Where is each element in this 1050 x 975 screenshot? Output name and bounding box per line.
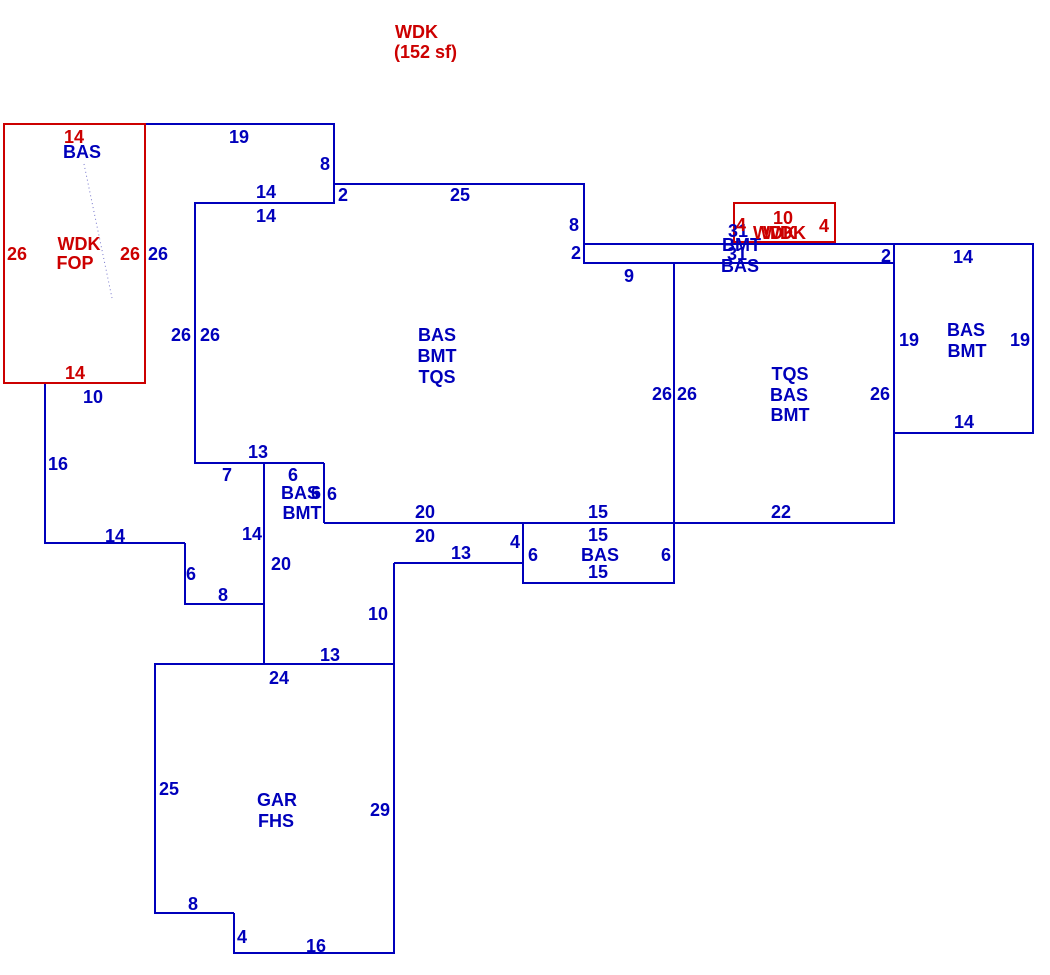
svg-text:FOP: FOP — [56, 253, 93, 273]
svg-text:4: 4 — [510, 532, 520, 552]
svg-text:GAR: GAR — [257, 790, 297, 810]
svg-text:BAS: BAS — [63, 142, 101, 162]
svg-text:15: 15 — [588, 502, 608, 522]
svg-text:26: 26 — [120, 244, 140, 264]
wire GAR bottom wall y=953 — [234, 952, 394, 954]
wire notch top wall y=463 — [194, 462, 324, 464]
svg-text:WDK: WDK — [395, 22, 438, 42]
wire main right upper wall x=584 — [583, 183, 585, 264]
svg-text:BAS: BAS — [418, 325, 456, 345]
svg-text:13: 13 — [248, 442, 268, 462]
wire east GAR wall x=394 — [393, 563, 395, 954]
wire GAR step wall y=913 — [155, 912, 234, 914]
svg-text:4: 4 — [819, 216, 829, 236]
svg-text:16: 16 — [48, 454, 68, 474]
svg-text:20: 20 — [271, 554, 291, 574]
svg-text:24: 24 — [269, 668, 289, 688]
svg-text:TQS: TQS — [771, 364, 808, 384]
svg-text:6: 6 — [327, 484, 337, 504]
svg-text:19: 19 — [229, 127, 249, 147]
wire step wall y=563 — [394, 562, 523, 564]
svg-text:14: 14 — [65, 363, 85, 383]
svg-text:14: 14 — [953, 247, 973, 267]
svg-text:6: 6 — [528, 545, 538, 565]
wire small box right wall x=324 — [323, 463, 325, 523]
svg-text:8: 8 — [569, 215, 579, 235]
wire south BAS bottom wall y=583 — [523, 582, 675, 584]
svg-text:14: 14 — [256, 206, 276, 226]
wire main top wall y=184 — [334, 183, 584, 185]
svg-text:BAS: BAS — [770, 385, 808, 405]
svg-text:TQS: TQS — [418, 367, 455, 387]
svg-text:FHS: FHS — [258, 811, 294, 831]
wire TQS right wall x=894 — [893, 243, 895, 524]
svg-text:BMT: BMT — [771, 405, 810, 425]
svg-text:BMT: BMT — [283, 503, 322, 523]
wire strip bottom wall y=263 — [584, 262, 894, 264]
svg-text:26: 26 — [652, 384, 672, 404]
svg-text:4: 4 — [237, 927, 247, 947]
svg-text:14: 14 — [105, 526, 125, 546]
svg-text:6: 6 — [186, 564, 196, 584]
svg-text:9: 9 — [624, 266, 634, 286]
wire wall y=604 — [185, 603, 264, 605]
wire TQS left wall x=674 — [673, 263, 675, 583]
svg-text:26: 26 — [7, 244, 27, 264]
svg-text:14: 14 — [242, 524, 262, 544]
svg-text:4: 4 — [736, 215, 746, 235]
svg-text:22: 22 — [771, 502, 791, 522]
svg-text:BMT: BMT — [948, 341, 987, 361]
wire step wall y=203 — [194, 202, 334, 204]
svg-text:26: 26 — [677, 384, 697, 404]
svg-text:(152 sf): (152 sf) — [394, 42, 457, 62]
svg-text:20: 20 — [415, 526, 435, 546]
svg-text:10: 10 — [368, 604, 388, 624]
deck WDK small red outline — [734, 203, 835, 242]
svg-text:6: 6 — [288, 465, 298, 485]
svg-text:BMT: BMT — [418, 346, 457, 366]
wire wall x=185 — [184, 543, 186, 605]
svg-text:15: 15 — [588, 562, 608, 582]
svg-text:26: 26 — [148, 244, 168, 264]
svg-text:16: 16 — [306, 936, 326, 956]
svg-text:10: 10 — [83, 387, 103, 407]
wire strip top wall y=244 — [584, 243, 1033, 245]
wire north-wing right wall x=334 — [333, 123, 335, 204]
svg-text:6: 6 — [311, 483, 321, 503]
svg-text:26: 26 — [171, 325, 191, 345]
wire GAR left wall x=155 — [154, 663, 156, 914]
wire porch left wall x=45 — [44, 383, 46, 544]
svg-text:2: 2 — [881, 246, 891, 266]
svg-text:25: 25 — [159, 779, 179, 799]
wire GAR step wall x=234 — [233, 913, 235, 954]
svg-text:13: 13 — [320, 645, 340, 665]
svg-text:7: 7 — [222, 465, 232, 485]
svg-text:WDK: WDK — [58, 234, 101, 254]
svg-text:8: 8 — [188, 894, 198, 914]
svg-text:19: 19 — [899, 330, 919, 350]
leader line from BAS label — [84, 164, 112, 298]
svg-text:BAS: BAS — [947, 320, 985, 340]
svg-text:8: 8 — [320, 154, 330, 174]
wire GAR top wall y=664 — [155, 663, 394, 665]
svg-text:14: 14 — [256, 182, 276, 202]
svg-text:26: 26 — [200, 325, 220, 345]
wire middle wall x=264 — [263, 463, 265, 665]
svg-text:20: 20 — [415, 502, 435, 522]
wire north-wing top wall y=124 — [145, 123, 334, 125]
svg-text:25: 25 — [450, 185, 470, 205]
svg-text:8: 8 — [218, 585, 228, 605]
wire east box right wall x=1033 — [1032, 243, 1034, 434]
svg-text:6: 6 — [661, 545, 671, 565]
wire south BAS left wall x=523 — [522, 523, 524, 584]
wire east box bottom wall y=433 — [894, 432, 1033, 434]
wire main left wall x=195 — [194, 202, 196, 464]
svg-text:14: 14 — [954, 412, 974, 432]
svg-text:2: 2 — [338, 185, 348, 205]
svg-text:29: 29 — [370, 800, 390, 820]
deck WDK FOP red outline — [4, 124, 145, 383]
wire wall y=543 — [45, 542, 185, 544]
svg-text:WDK: WDK — [763, 223, 806, 243]
svg-text:2: 2 — [571, 243, 581, 263]
svg-text:19: 19 — [1010, 330, 1030, 350]
svg-text:15: 15 — [588, 525, 608, 545]
svg-text:BAS: BAS — [721, 256, 759, 276]
svg-text:13: 13 — [451, 543, 471, 563]
svg-text:26: 26 — [870, 384, 890, 404]
wire long south wall y=523 — [324, 522, 894, 524]
